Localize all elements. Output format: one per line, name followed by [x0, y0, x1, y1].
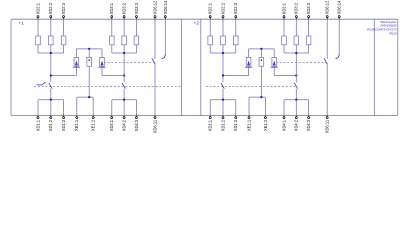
- terminal XD1:3 (bottom): [235, 116, 237, 119]
- fuse: [282, 36, 287, 45]
- terminal XD6:12 (top): [154, 15, 156, 19]
- arrester top bus: [249, 48, 275, 50]
- fuse: [294, 36, 299, 45]
- terminal XD3:1 (top): [111, 15, 113, 19]
- svg-text:XD6:12: XD6:12: [325, 0, 330, 14]
- terminal XD1:1 (bottom): [37, 116, 39, 119]
- bus joining XD2 feeders: [38, 52, 64, 54]
- dashed link line 1: [104, 61, 155, 63]
- svg-text:XD4:2: XD4:2: [294, 119, 299, 131]
- surge arrester element: [246, 57, 251, 66]
- svg-text:XD6:11: XD6:11: [325, 119, 330, 133]
- svg-text:XD3:2: XD3:2: [122, 2, 127, 14]
- divider box1 right edge: [181, 19, 183, 115]
- svg-text:XD3:2: XD3:2: [294, 2, 299, 14]
- svg-text:XD6:12: XD6:12: [152, 0, 157, 14]
- terminal XD3:2 (top): [295, 15, 297, 19]
- terminal XD4:3 (bottom): [308, 116, 310, 119]
- U-bus XD4: [112, 99, 137, 101]
- terminal XD2:3 (top): [63, 15, 65, 19]
- wire switch1 to U1: [222, 89, 224, 100]
- bus joining XD3 feeders: [284, 52, 309, 54]
- arrester branch B (earth): [88, 49, 90, 97]
- wire XD6:12 with contact: [326, 19, 328, 59]
- svg-text:XE1:1: XE1:1: [74, 119, 79, 131]
- surge arrester element: [259, 57, 264, 66]
- terminal XD4:2 (bottom): [123, 116, 125, 119]
- svg-text:+1: +1: [18, 21, 24, 26]
- terminal XD6:14 (top): [338, 15, 340, 19]
- U-bus XD1: [210, 99, 236, 101]
- wire switch2 to U3: [295, 89, 297, 100]
- bus joining XD3 feeders: [112, 52, 137, 54]
- wire switch2 to U3: [123, 89, 125, 100]
- terminal XD3:3 (top): [308, 15, 310, 19]
- U-bus XE1: [249, 96, 265, 98]
- disconnect switch: [49, 83, 52, 89]
- svg-text:XD2:2: XD2:2: [220, 2, 225, 14]
- svg-text:+2: +2: [194, 21, 200, 26]
- svg-text:XD2:2: XD2:2: [48, 2, 53, 14]
- terminal XD1:2 (bottom): [50, 116, 52, 119]
- svg-text:XD1:1: XD1:1: [36, 119, 41, 131]
- dashed link line 2: [34, 86, 181, 88]
- wire group XD3 feeders: [283, 19, 285, 53]
- wire group XD2 feeders: [37, 19, 39, 53]
- terminal XD2:3 (top): [235, 15, 237, 19]
- wire XD6:12 with contact: [154, 19, 156, 59]
- mounting-location frame: [11, 19, 398, 115]
- terminal XD4:1 (bottom): [283, 116, 285, 119]
- svg-text:XD2:3: XD2:3: [61, 2, 66, 14]
- arrester branch C: [273, 49, 275, 76]
- fuse: [234, 36, 239, 45]
- svg-text:XD6:14: XD6:14: [163, 0, 168, 14]
- terminal XE1:2 (bottom): [92, 116, 94, 119]
- wire to arrester A: [223, 75, 249, 77]
- svg-text:XD1:3: XD1:3: [61, 119, 66, 131]
- fuse: [134, 36, 139, 45]
- fuse: [221, 36, 226, 45]
- terminal XD3:1 (top): [283, 15, 285, 19]
- dashed link line 1: [276, 61, 327, 63]
- fuse: [110, 36, 115, 45]
- wire group XD2 feeders: [209, 19, 211, 53]
- svg-text:XD4:1: XD4:1: [281, 119, 286, 131]
- terminal XD4:2 (bottom): [295, 116, 297, 119]
- terminal XE1:2 (bottom): [264, 116, 266, 119]
- terminal XD3:2 (top): [123, 15, 125, 19]
- svg-text:XD2:1: XD2:1: [36, 2, 41, 14]
- svg-text:XD3:3: XD3:3: [134, 2, 139, 14]
- surge arrester element: [272, 57, 277, 66]
- terminal XD3:3 (top): [135, 15, 137, 19]
- svg-text:XD1:3: XD1:3: [233, 119, 238, 131]
- svg-text:XD1:2: XD1:2: [48, 119, 53, 131]
- fuse: [36, 36, 41, 45]
- disconnect switch: [221, 83, 224, 89]
- svg-text:XD3:1: XD3:1: [281, 2, 286, 14]
- wire arrester C to group 2: [102, 75, 124, 77]
- terminal XD6:14 (top): [164, 15, 166, 19]
- svg-text:XD2:1: XD2:1: [208, 2, 213, 14]
- terminal XD4:1 (bottom): [111, 116, 113, 119]
- fuse: [122, 36, 127, 45]
- svg-text:XD6:11: XD6:11: [152, 119, 157, 133]
- switch side lead: [37, 84, 42, 86]
- bus joining XD2 feeders: [210, 52, 236, 54]
- svg-text:XD1:2: XD1:2: [220, 119, 225, 131]
- wire XD6:14 with hook contact: [338, 19, 340, 54]
- svg-text:XD6:14: XD6:14: [337, 0, 342, 14]
- wire XD6:14 with hook contact: [164, 19, 166, 54]
- svg-text:XD2:3: XD2:3: [233, 2, 238, 14]
- fuse: [61, 36, 66, 45]
- terminal XD2:1 (top): [37, 15, 39, 19]
- terminal XD4:3 (bottom): [135, 116, 137, 119]
- U-bus XD1: [38, 99, 64, 101]
- svg-text:XD3:3: XD3:3: [306, 2, 311, 14]
- terminal XD2:1 (top): [209, 15, 211, 19]
- fuse: [208, 36, 213, 45]
- svg-text:PE10: PE10: [389, 32, 397, 36]
- terminal XD1:1 (bottom): [209, 116, 211, 119]
- svg-text:XD1:1: XD1:1: [208, 119, 213, 131]
- terminal XE1:1 (bottom): [248, 116, 250, 119]
- arrester top bus: [76, 48, 102, 50]
- svg-text:XD4:2: XD4:2: [122, 119, 127, 131]
- surge arrester element: [100, 57, 105, 66]
- terminal XD1:2 (bottom): [222, 116, 224, 119]
- wire switch1 to U1: [50, 89, 52, 100]
- disconnect switch: [294, 83, 297, 89]
- divider box2 right edge: [373, 19, 375, 115]
- terminal XD6:11 (bottom): [154, 116, 156, 119]
- terminal XD6:11 (bottom): [326, 116, 328, 119]
- U-bus XE1: [77, 96, 93, 98]
- arrester branch A: [75, 49, 77, 76]
- surge arrester element: [74, 57, 79, 66]
- svg-text:XE1:2: XE1:2: [91, 119, 96, 131]
- svg-text:XE1:1: XE1:1: [246, 119, 251, 131]
- wire to arrester A: [51, 75, 77, 77]
- arrester branch C: [101, 49, 103, 76]
- wire arrester C to group 2: [274, 75, 296, 77]
- fuse: [306, 36, 311, 45]
- svg-text:XD4:3: XD4:3: [134, 119, 139, 131]
- terminal XE1:1 (bottom): [76, 116, 78, 119]
- terminal XD6:12 (top): [326, 15, 328, 19]
- svg-text:XD3:1: XD3:1: [109, 2, 114, 14]
- arrester branch A: [248, 49, 250, 76]
- svg-text:XD4:1: XD4:1: [109, 119, 114, 131]
- wire group XD3 feeders: [111, 19, 113, 53]
- terminal XD1:3 (bottom): [63, 116, 65, 119]
- arrester branch B (earth): [260, 49, 262, 97]
- svg-text:XE1:2: XE1:2: [263, 119, 268, 131]
- divider box2 left edge: [200, 19, 202, 115]
- fuse: [49, 36, 54, 45]
- disconnect switch: [122, 83, 125, 89]
- svg-text:XD4:3: XD4:3: [306, 119, 311, 131]
- terminal XD2:2 (top): [50, 15, 52, 19]
- U-bus XD4: [284, 99, 309, 101]
- surge arrester element: [87, 57, 92, 66]
- terminal XD2:2 (top): [222, 15, 224, 19]
- dashed link line 2: [206, 86, 296, 88]
